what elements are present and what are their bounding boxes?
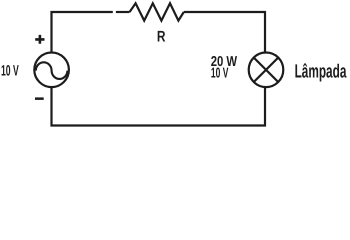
resistor R [130,3,184,20]
svg-text:R: R [157,29,166,46]
svg-text:10 V: 10 V [211,65,229,81]
lamp L1 circle [249,53,284,88]
plus sign (source positive terminal) [35,35,44,44]
svg-text:Lâmpada: Lâmpada [295,61,347,82]
wire right vertical lower + bottom horizontal + left vertical lower [52,87,266,126]
source V1 sine wave [36,62,68,79]
wire top horizontal from gap to resistor [116,11,130,13]
lamp L1 X stroke 1 [254,58,278,82]
wire top-left corner (left vertical upper + top horizontal to gap) [52,12,113,53]
wire top-right corner (resistor to right vertical upper) [184,12,265,53]
svg-text:10 V: 10 V [1,63,19,80]
lamp L1 X stroke 2 [254,58,278,82]
source V1 (AC voltage source circle) [34,53,69,88]
minus sign (source negative terminal) [35,97,44,100]
